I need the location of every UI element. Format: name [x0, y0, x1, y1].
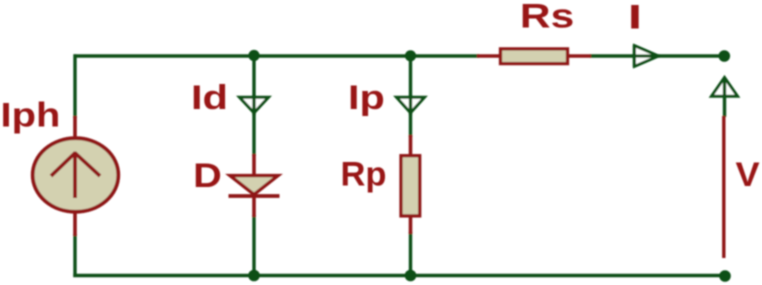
wire Rp branch lower [409, 232, 412, 275]
resistor Rp body [401, 156, 420, 216]
voltage arrow V head [712, 78, 738, 118]
label I [628, 0, 642, 36]
wire diode branch upper [252, 56, 255, 156]
current arrow Id [240, 95, 269, 115]
node junction dot top diode [248, 50, 259, 61]
current source Iph pin top [73, 116, 77, 140]
svg-text:Id: Id [191, 78, 228, 117]
diode D body triangle [230, 176, 278, 195]
current source Iph arrow [51, 153, 100, 199]
wire top horizontal right segment [590, 54, 724, 57]
wire Rp branch upper [409, 56, 412, 137]
diode D pin bottom [252, 195, 256, 217]
svg-text:D: D [193, 155, 222, 194]
svg-text:Rs: Rs [520, 0, 574, 35]
wire bottom horizontal [73, 274, 725, 278]
node junction dot bottom diode [248, 270, 260, 282]
svg-text:I: I [628, 0, 642, 36]
resistor Rs body [501, 49, 568, 64]
current source Iph pin bottom [73, 211, 77, 236]
label D [193, 155, 222, 194]
svg-text:Rp: Rp [341, 155, 387, 193]
resistor Rp pin top [409, 135, 413, 158]
label V [736, 156, 761, 194]
diode D cathode bar [229, 194, 280, 198]
node junction dot bottom Rp [405, 270, 417, 282]
wire left vertical (top) [73, 54, 76, 118]
svg-text:Ip: Ip [348, 79, 385, 117]
node junction dot top right [719, 50, 731, 62]
wire top horizontal left segment [74, 54, 480, 57]
svg-text:V: V [736, 156, 761, 194]
resistor Rp pin bottom [409, 215, 413, 234]
diode D pin top [252, 154, 256, 178]
node junction dot bottom right [719, 270, 731, 282]
resistor Rs pin right [568, 54, 591, 58]
wire diode branch lower [252, 215, 255, 275]
label Rp [341, 155, 387, 193]
label Ip [348, 79, 385, 117]
current arrow Ip [397, 95, 425, 115]
label Iph [1, 95, 61, 134]
wire left vertical (bottom) [73, 234, 76, 277]
label Id [191, 78, 228, 117]
current arrow I [632, 45, 660, 67]
resistor Rs pin left [477, 54, 500, 58]
current source Iph body [33, 138, 119, 212]
label Rs [520, 0, 574, 35]
voltage line V [722, 116, 725, 258]
svg-text:Iph: Iph [1, 95, 61, 134]
node junction dot top Rp [405, 50, 416, 61]
